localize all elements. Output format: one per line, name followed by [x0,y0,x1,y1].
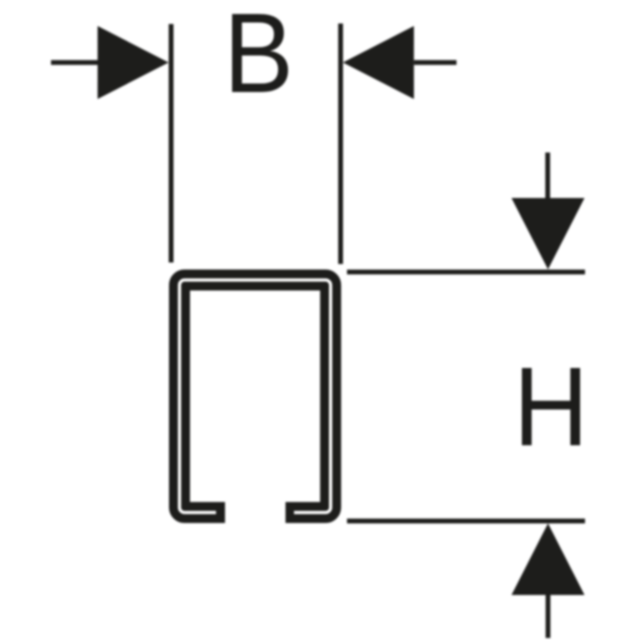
extension line right of dimension B [338,24,343,265]
label H [513,344,588,469]
dimension arrow B left (pointing right) [51,26,169,99]
extension line left of dimension B [169,24,174,263]
label B [224,0,294,117]
dimension arrow H top (pointing down) [512,153,585,270]
channel profile (C-rail cross-section) [180,280,331,513]
svg-text:B: B [224,0,294,117]
svg-text:H: H [513,344,588,469]
dimension line H top [347,270,585,275]
dimension arrow H bottom (pointing up) [512,523,585,638]
dimension line H bottom [347,519,585,524]
dimension arrow B right (pointing left) [343,26,457,99]
